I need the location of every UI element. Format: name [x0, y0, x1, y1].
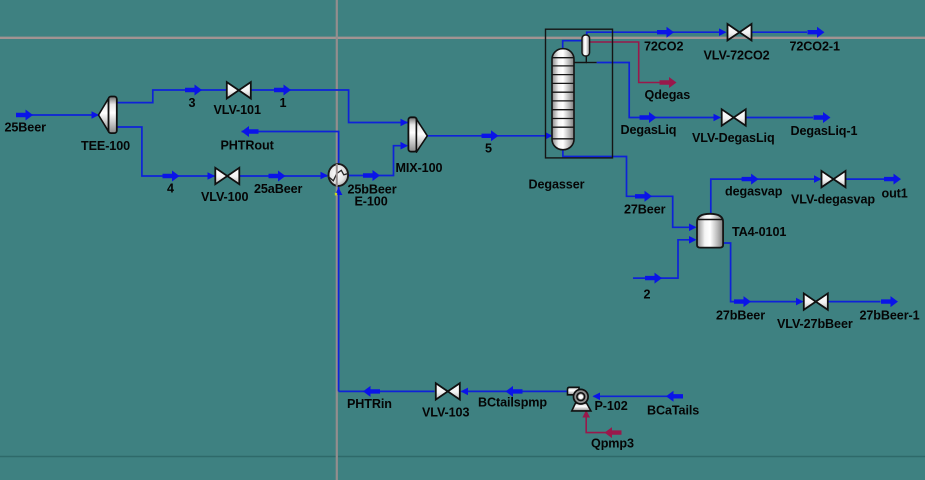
bold arrow stream 1 — [274, 85, 291, 96]
bold arrow 25Beer — [16, 110, 33, 121]
valve VLV-27bBeer — [804, 293, 828, 309]
svg-text:27bBeer-1: 27bBeer-1 — [860, 309, 920, 323]
wire stream 2 into TA4-0101 — [633, 240, 695, 278]
svg-text:degasvap: degasvap — [725, 185, 783, 199]
bold arrow BCtailspmp (points left) — [506, 386, 523, 397]
svg-text:DegasLiq-1: DegasLiq-1 — [791, 124, 858, 138]
arrowhead into VLV-DegasLiq — [714, 114, 722, 122]
crosshair horizontal gray line — [0, 37, 925, 39]
wire 27bBeer-1 — [828, 301, 881, 303]
valve VLV-101 — [227, 82, 251, 98]
svg-text:VLV-100: VLV-100 — [201, 190, 248, 204]
bold arrow stream 4 — [163, 171, 180, 182]
svg-text:27bBeer: 27bBeer — [716, 309, 765, 323]
heat exchanger E-100 — [328, 164, 349, 187]
svg-text:Qpmp3: Qpmp3 — [591, 436, 634, 450]
arrowhead into VLV-100 — [208, 172, 216, 180]
bold arrow degasvap — [742, 174, 759, 185]
valve VLV-DegasLiq — [722, 109, 746, 125]
bold arrow PHTRin (points left) — [363, 386, 380, 397]
svg-text:P-102: P-102 — [595, 399, 628, 413]
svg-text:TEE-100: TEE-100 — [81, 139, 130, 153]
wire 25aBeer: VLV-100 to E-100 — [240, 175, 328, 177]
svg-text:DegasLiq: DegasLiq — [621, 123, 677, 137]
wire 27Beer: column bottom to TA4-0101 — [563, 148, 696, 227]
bold arrow DegasLiq-1 — [814, 112, 831, 123]
svg-text:BCtailspmp: BCtailspmp — [478, 395, 547, 409]
arrowhead into VLV-103 (points left) — [461, 388, 469, 396]
bold arrow PHTRout (points left) — [242, 126, 259, 137]
condenser drum of Degasser — [582, 35, 590, 56]
arrowhead into VLV-72CO2 — [719, 28, 727, 36]
wire DegasLiq-1 out of valve — [747, 117, 814, 119]
bold arrow stream 2 — [645, 273, 662, 284]
bold arrow 27bBeer — [734, 296, 751, 307]
bottom window edge line — [0, 456, 925, 458]
node yellow port marker at E-100 bottom — [335, 193, 337, 196]
svg-text:27Beer: 27Beer — [624, 203, 666, 217]
svg-text:VLV-72CO2: VLV-72CO2 — [704, 49, 770, 63]
svg-text:TA4-0101: TA4-0101 — [732, 225, 786, 239]
tank TA4-0101 — [697, 214, 723, 248]
svg-text:VLV-103: VLV-103 — [422, 406, 469, 420]
wire out1 — [846, 178, 884, 180]
wire Qdegas energy stream (maroon) — [589, 42, 661, 83]
wire BCaTails into P-102 — [594, 395, 683, 397]
svg-text:Qdegas: Qdegas — [645, 88, 691, 102]
arrowhead into VLV-degasvap — [814, 175, 822, 183]
svg-text:VLV-DegasLiq: VLV-DegasLiq — [692, 131, 775, 145]
pump P-102 — [568, 387, 591, 411]
arrowhead into MIX-100 lower — [401, 142, 409, 150]
wire 25bBeer: E-100 to MIX-100 lower inlet — [349, 146, 407, 176]
bold arrow 25bBeer — [363, 170, 380, 181]
arrowhead into P-102 (points left) — [593, 393, 601, 401]
svg-text:3: 3 — [189, 96, 196, 110]
svg-text:72CO2-1: 72CO2-1 — [790, 40, 840, 54]
wire stream 5: MIX-100 to Degasser — [427, 135, 551, 137]
wire TEE-100 top outlet to stream 3/1 — [117, 90, 227, 103]
Degasser sub-flowsheet boundary rectangle — [546, 29, 613, 158]
bold arrow stream 5 — [482, 130, 499, 141]
wire E-100 vertical cold side: PHTRout corner down to PHTRin corner — [242, 132, 339, 392]
bold arrow 72CO2 — [657, 27, 674, 38]
wire column top to condenser — [563, 41, 582, 52]
svg-text:out1: out1 — [882, 187, 908, 201]
arrowhead into E-100 — [321, 172, 329, 180]
svg-text:72CO2: 72CO2 — [644, 40, 683, 54]
arrowhead into TA4-0101 top inlet — [689, 224, 697, 232]
bold arrow DegasLiq — [640, 112, 657, 123]
wire condenser return stub (black) — [574, 56, 586, 63]
bold arrow 72CO2-1 — [808, 27, 825, 38]
wire 72CO2-1 out of valve — [752, 31, 807, 33]
bold arrow 25aBeer — [269, 171, 286, 182]
wire TEE-100 bottom outlet to stream 4 — [117, 127, 215, 176]
svg-text:25Beer: 25Beer — [5, 121, 47, 135]
column Degasser shell — [552, 49, 574, 150]
wire Qpmp3 energy stream (maroon) — [586, 412, 621, 433]
bold arrow out1 — [884, 174, 901, 185]
arrowhead into VLV-27bBeer — [796, 298, 804, 306]
bold arrow 27Beer — [635, 191, 652, 202]
wire degasvap: TA4-0101 top to VLV-degasvap — [711, 179, 820, 214]
svg-text:VLV-27bBeer: VLV-27bBeer — [777, 317, 853, 331]
arrowhead into TEE-100 — [92, 111, 100, 119]
bold arrow Qdegas — [660, 77, 677, 88]
valve VLV-degasvap — [822, 171, 846, 187]
valve VLV-72CO2 — [728, 24, 752, 40]
svg-text:25aBeer: 25aBeer — [254, 182, 303, 196]
bold arrow stream 3 — [185, 85, 202, 96]
crosshair vertical gray line — [336, 0, 338, 480]
mixer MIX-100 — [408, 117, 427, 152]
bold arrow 27bBeer-1 — [881, 296, 898, 307]
wire PHTRin: VLV-103 to vertical — [339, 390, 435, 392]
wire 72CO2: condenser to VLV-72CO2 — [587, 32, 725, 36]
svg-text:Degasser: Degasser — [529, 177, 585, 191]
bold arrow BCaTails (points left) — [666, 391, 683, 402]
svg-text:E-100: E-100 — [355, 195, 388, 209]
arrowhead into MIX-100 top — [401, 119, 409, 127]
svg-text:1: 1 — [280, 96, 287, 110]
wire DegasLiq black lead — [586, 62, 596, 64]
bold arrow Qpmp3 (points left) — [605, 427, 622, 438]
svg-text:BCaTails: BCaTails — [647, 404, 699, 418]
wire stream 1: VLV-101 to MIX-100 top inlet — [251, 90, 408, 123]
valve VLV-100 — [215, 168, 239, 184]
tee TEE-100 — [99, 97, 117, 134]
svg-text:5: 5 — [485, 142, 492, 156]
arrowhead into E-100 bottom (points up) — [335, 188, 343, 196]
svg-text:PHTRout: PHTRout — [221, 139, 275, 153]
svg-text:VLV-degasvap: VLV-degasvap — [791, 193, 875, 207]
wire 25Beer inlet — [18, 114, 98, 116]
svg-text:MIX-100: MIX-100 — [396, 161, 443, 175]
arrowhead Qpmp3 into pump base (points up) — [582, 410, 590, 418]
svg-text:PHTRin: PHTRin — [347, 397, 392, 411]
arrowhead into Degasser — [545, 132, 553, 140]
wire BCtailspmp: P-102 to VLV-103 — [462, 390, 569, 392]
svg-text:2: 2 — [644, 288, 651, 302]
arrowhead into TA4-0101 lower inlet — [689, 236, 697, 244]
wire DegasLiq — [597, 63, 720, 118]
svg-text:4: 4 — [167, 182, 174, 196]
wire 27bBeer: TA4-0101 bottom to VLV-27bBeer — [723, 243, 802, 302]
svg-text:VLV-101: VLV-101 — [214, 103, 261, 117]
valve VLV-103 — [436, 383, 460, 399]
